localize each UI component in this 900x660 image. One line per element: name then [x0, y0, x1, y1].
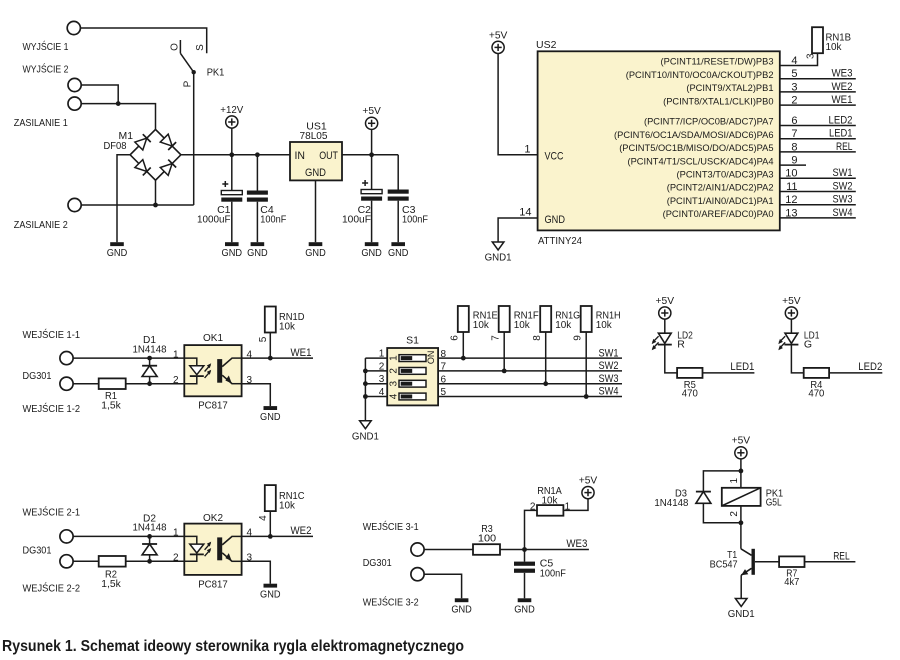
label DG301 [23, 545, 52, 557]
wire [126, 560, 185, 562]
svg-text:WE2: WE2 [291, 525, 312, 537]
label 470 [682, 387, 698, 399]
svg-text:10k: 10k [596, 319, 613, 331]
node junction [147, 356, 152, 361]
resistor RN1E [458, 306, 469, 332]
node junction [147, 559, 152, 564]
wire S1 common bus [364, 358, 366, 421]
svg-text:WE2: WE2 [832, 81, 853, 93]
terminal WEJŚCIE 1-2 [60, 377, 73, 390]
svg-text:S1: S1 [406, 335, 419, 347]
label 1N4148 [133, 344, 167, 356]
svg-text:8: 8 [532, 335, 543, 341]
svg-text:WEJŚCIE 2-2: WEJŚCIE 2-2 [23, 582, 81, 595]
wire pin 5 [780, 78, 856, 80]
ground [361, 242, 382, 259]
ground GND1 [728, 599, 755, 621]
node junction [739, 520, 744, 525]
label RN1G [555, 309, 580, 321]
wire [424, 549, 473, 551]
svg-text:GND1: GND1 [485, 252, 512, 264]
ground GND1 [485, 242, 512, 264]
svg-text:LED2: LED2 [858, 361, 882, 373]
net label SW2 [833, 180, 853, 192]
svg-text:WEJŚCIE 3-2: WEJŚCIE 3-2 [363, 596, 419, 609]
svg-text:Rysunek 1. Schemat ideowy ster: Rysunek 1. Schemat ideowy sterownika ryg… [2, 638, 464, 655]
svg-text:OK1: OK1 [203, 332, 223, 344]
label 100nF [402, 214, 428, 226]
wire +12V to rail and C1 [231, 128, 233, 190]
svg-text:LED2: LED2 [829, 114, 853, 126]
svg-text:G: G [804, 338, 812, 350]
wire pin 3 [780, 91, 856, 93]
bridge diode top-right [160, 134, 176, 150]
wire pin 12 [780, 204, 856, 206]
wire [424, 574, 462, 598]
node junction [363, 369, 368, 374]
svg-text:100nF: 100nF [260, 214, 286, 226]
svg-text:ON: ON [426, 351, 436, 365]
svg-text:1: 1 [729, 477, 740, 483]
label 100nF [540, 567, 566, 579]
pin label PA4 [627, 156, 773, 166]
ground [451, 598, 472, 615]
label VCC [545, 151, 564, 163]
svg-text:(PCINT0/AREF/ADC0)PA0: (PCINT0/AREF/ADC0)PA0 [663, 209, 774, 219]
node junction [502, 369, 507, 374]
net label WE1 [832, 94, 853, 106]
svg-text:2: 2 [173, 375, 179, 386]
svg-text:2: 2 [729, 511, 740, 517]
svg-text:LED1: LED1 [730, 361, 754, 373]
resistor RN1D [265, 307, 276, 333]
label M1 [119, 130, 134, 142]
node junction [147, 534, 152, 539]
svg-text:SW1: SW1 [599, 347, 619, 359]
svg-text:2: 2 [791, 95, 797, 107]
wire WE3 [500, 549, 589, 551]
label GND pin [305, 167, 326, 179]
bridge diode bottom-right [160, 160, 176, 176]
wire collector [740, 523, 742, 549]
power +5V [362, 105, 381, 129]
node junction [363, 381, 368, 386]
ic US2 ATTINY24 box [538, 51, 780, 230]
svg-text:OUT: OUT [319, 150, 338, 162]
label OK1 [203, 332, 223, 344]
svg-text:GND: GND [260, 411, 281, 423]
label T1 [727, 549, 737, 561]
svg-text:1: 1 [173, 349, 179, 360]
pin number 9 [791, 155, 797, 167]
svg-text:GND: GND [222, 247, 243, 259]
svg-text:G5L: G5L [766, 497, 782, 509]
resistor RN1B [812, 27, 823, 53]
capacitor C2 [361, 180, 382, 201]
svg-text:5: 5 [258, 336, 269, 342]
svg-text:OK2: OK2 [203, 512, 223, 524]
pin number 5 [441, 387, 447, 398]
relay coil PK1 [722, 488, 761, 506]
svg-text:SW4: SW4 [599, 386, 619, 398]
wire [269, 333, 271, 359]
svg-text:VCC: VCC [545, 151, 564, 163]
S1 switch 2 rocker [399, 368, 426, 375]
svg-text:8: 8 [441, 349, 447, 360]
pin label PB2 [626, 70, 774, 80]
svg-text:SW2: SW2 [599, 360, 619, 372]
svg-text:(PCINT10/INT0/OC0A/CKOUT)PB2: (PCINT10/INT0/OC0A/CKOUT)PB2 [626, 70, 774, 80]
svg-text:(PCINT7/ICP/OC0B/ADC7)PA7: (PCINT7/ICP/OC0B/ADC7)PA7 [644, 117, 774, 127]
label RN1D [279, 311, 305, 323]
svg-text:1000uF: 1000uF [197, 214, 231, 226]
svg-text:DF08: DF08 [104, 140, 127, 152]
svg-text:78L05: 78L05 [300, 130, 328, 142]
dip switch S1 box [387, 348, 438, 405]
label BC547 [710, 559, 738, 571]
pin number 4 [379, 387, 385, 398]
label US2 [536, 39, 557, 51]
svg-text:470: 470 [808, 387, 824, 399]
pin number 5 rotated [258, 336, 269, 342]
S1 right pin wire 8 [438, 357, 622, 359]
label 1,5k [101, 578, 121, 590]
svg-text:SW2: SW2 [833, 180, 853, 192]
svg-text:GND: GND [361, 247, 382, 259]
label LD2 [677, 330, 693, 342]
svg-text:SW3: SW3 [599, 373, 619, 385]
svg-text:+5V: +5V [489, 29, 508, 41]
S1 left pin wire 3 [365, 383, 387, 385]
pin number 2 [530, 501, 536, 512]
wire [81, 104, 155, 130]
wire [397, 155, 399, 190]
svg-text:1,5k: 1,5k [101, 578, 121, 590]
svg-text:S: S [195, 44, 206, 51]
pin number 11 [786, 181, 797, 193]
label US1 [306, 121, 327, 133]
label RN1E [473, 309, 498, 321]
relay contact PK1 O stub [179, 40, 181, 53]
S1 right pin wire 7 [438, 370, 622, 372]
node junction [461, 356, 466, 361]
S1 left pin wire 4 [365, 396, 387, 398]
pin number 7 [441, 362, 447, 373]
transistor T1 [741, 549, 755, 575]
label D2 [143, 512, 156, 524]
label 1000uF [197, 214, 231, 226]
label RN1C [279, 490, 305, 502]
svg-text:470: 470 [682, 387, 698, 399]
wire [664, 319, 666, 333]
svg-text:9: 9 [573, 335, 584, 341]
svg-text:ZASILANIE 2: ZASILANIE 2 [14, 219, 68, 231]
label 100 [478, 533, 496, 545]
ground [247, 242, 268, 259]
svg-text:10k: 10k [279, 321, 296, 333]
node junction [739, 469, 744, 474]
label C4 [260, 204, 274, 216]
label WEJSCIE 3-2 [363, 596, 419, 609]
label R4 [810, 379, 822, 391]
wire [256, 202, 258, 243]
net label WE2 [832, 81, 853, 93]
label 10k [279, 321, 296, 333]
ground [514, 598, 535, 615]
svg-text:GND1: GND1 [352, 430, 379, 442]
wire [242, 561, 271, 583]
pin number 4 [247, 349, 253, 360]
wire [149, 555, 151, 562]
svg-text:5: 5 [791, 68, 797, 80]
wire [231, 202, 233, 243]
svg-text:+5V: +5V [656, 295, 675, 307]
net label WE3 [566, 538, 587, 550]
node junction [268, 356, 273, 361]
wire pin 6 [780, 125, 856, 127]
power +5V [732, 435, 751, 459]
label PK1 [766, 487, 784, 499]
power +5V [579, 475, 598, 499]
label 100nF [260, 214, 286, 226]
svg-text:(PCINT4/T1/SCL/USCK/ADC4)PA4: (PCINT4/T1/SCL/USCK/ADC4)PA4 [627, 156, 773, 166]
label ATTINY24 [538, 235, 582, 247]
svg-text:GND: GND [451, 603, 472, 615]
svg-text:5: 5 [441, 387, 447, 398]
svg-text:(PCINT6/OC1A/SDA/MOSI/ADC6)PA6: (PCINT6/OC1A/SDA/MOSI/ADC6)PA6 [614, 130, 773, 140]
wire REL [805, 561, 856, 563]
wire [73, 357, 184, 359]
terminal WEJŚCIE 2-2 [60, 555, 73, 568]
label OUT [319, 150, 338, 162]
svg-text:10k: 10k [542, 494, 559, 506]
label RN1H [596, 309, 621, 321]
svg-text:WE1: WE1 [291, 347, 312, 359]
svg-text:O: O [169, 43, 180, 51]
LD2 light arrows [652, 336, 659, 350]
relay contact PK1 pole dot [192, 70, 196, 74]
wire WE2 [242, 535, 313, 537]
svg-text:7: 7 [441, 362, 447, 373]
wire [256, 155, 258, 191]
wire pin 11 [780, 191, 856, 193]
bridge rectifier M1 outline [130, 129, 181, 180]
label 10k [596, 319, 613, 331]
optocoupler OK1 box [184, 345, 241, 396]
wire [525, 510, 538, 549]
wire ZASILANIE 2 row [81, 204, 194, 206]
wire pin 8 [780, 151, 856, 153]
svg-text:100uF: 100uF [342, 214, 371, 226]
wire [740, 459, 742, 488]
node junction [369, 152, 374, 157]
pin number 12 [785, 194, 797, 206]
pin number 3 [791, 81, 797, 93]
pin number 7 [791, 128, 797, 140]
svg-text:1,5k: 1,5k [101, 399, 121, 411]
wire [829, 372, 882, 374]
svg-text:12: 12 [785, 194, 797, 206]
label DG301 [23, 370, 52, 382]
label ZASILANIE 1 [14, 117, 68, 129]
net label SW4 [599, 386, 619, 398]
svg-text:(PCINT5/OC1B/MISO/DO/ADC5)PA5: (PCINT5/OC1B/MISO/DO/ADC5)PA5 [619, 143, 773, 153]
svg-text:GND: GND [305, 167, 326, 179]
wire pin 4 to RN1B [780, 53, 818, 65]
OK1 light arrows [205, 363, 212, 378]
label PC817 [198, 579, 228, 591]
node junction [363, 394, 368, 399]
wire [524, 573, 526, 599]
label RN1F [514, 309, 539, 321]
label C2 [358, 204, 372, 216]
svg-text:(PCINT1/AIN0/ADC1)PA1: (PCINT1/AIN0/ADC1)PA1 [667, 196, 774, 206]
pin label PB3 [661, 57, 774, 67]
node junction [116, 101, 121, 106]
capacitor C1 [221, 181, 242, 202]
S1 digit 1 rotated [388, 355, 399, 361]
pin label PA5 [619, 143, 773, 153]
label D1 [143, 334, 156, 346]
label R7 [786, 567, 797, 579]
svg-text:(PCINT3/T0/ADC3)PA3: (PCINT3/T0/ADC3)PA3 [677, 170, 774, 180]
label WYJSCIE 2 [23, 63, 69, 76]
wire GND pin 14 [498, 218, 537, 242]
net label LED2 [829, 114, 853, 126]
diode D1 [142, 366, 157, 377]
label D3 [675, 487, 687, 499]
pin number 6 rotated [450, 335, 461, 341]
svg-text:+5V: +5V [362, 105, 381, 117]
wire US1 GND [315, 180, 317, 242]
wire bridge bottom vertex [155, 180, 157, 205]
wire [503, 332, 505, 371]
svg-text:DG301: DG301 [23, 545, 52, 557]
svg-text:R: R [677, 338, 685, 350]
label OK2 [203, 512, 223, 524]
svg-text:+5V: +5V [732, 435, 751, 447]
OK2 light arrows [205, 542, 212, 557]
svg-text:4k7: 4k7 [784, 576, 799, 588]
resistor R4 [804, 368, 829, 378]
svg-text:WEJŚCIE 1-1: WEJŚCIE 1-1 [23, 328, 81, 341]
terminal WEJŚCIE 1-1 [60, 352, 73, 365]
label R5 [684, 379, 696, 391]
node junction [522, 547, 527, 552]
wire VCC [498, 54, 537, 155]
svg-text:2: 2 [379, 361, 385, 372]
svg-text:4: 4 [379, 387, 385, 398]
svg-text:SW1: SW1 [833, 167, 853, 179]
svg-text:WE3: WE3 [566, 538, 587, 550]
wire [242, 384, 271, 406]
node junction [153, 203, 158, 208]
svg-text:4: 4 [388, 393, 399, 399]
svg-text:REL: REL [836, 141, 853, 153]
wire [665, 345, 677, 373]
label 4k7 [784, 576, 799, 588]
svg-text:DG301: DG301 [23, 370, 52, 382]
wire [545, 332, 547, 384]
S1 switch 1 rocker [399, 355, 426, 362]
wire +12V rail [181, 154, 290, 156]
node junction [147, 381, 152, 386]
pin number 8 [441, 349, 447, 360]
svg-text:(PCINT2/AIN1/ADC2)PA2: (PCINT2/AIN1/ADC2)PA2 [667, 183, 774, 193]
pin label PB1 [686, 83, 773, 93]
OK1 internal LED [184, 358, 204, 384]
svg-text:6: 6 [450, 335, 461, 341]
pin number 4 [247, 528, 253, 539]
svg-text:WEJŚCIE 1-2: WEJŚCIE 1-2 [23, 402, 81, 415]
label WEJŚCIE 1-2 [23, 402, 81, 415]
label WYJSCIE 1 [23, 40, 69, 53]
svg-text:10k: 10k [826, 41, 843, 53]
svg-text:6: 6 [441, 374, 447, 385]
wire [703, 372, 755, 374]
S1 digit 4 rotated [388, 393, 399, 399]
LD1 light arrows [778, 336, 785, 350]
ground [222, 242, 243, 259]
pin number 14 [519, 207, 531, 219]
net label LED1 [829, 128, 853, 140]
label G5L [766, 497, 782, 509]
svg-text:PK1: PK1 [207, 67, 225, 79]
resistor R3 [473, 544, 500, 555]
wire bridge minus to GND [117, 155, 130, 242]
svg-text:WEJŚCIE 3-1: WEJŚCIE 3-1 [363, 520, 419, 533]
svg-text:1N4148: 1N4148 [654, 497, 688, 509]
wire [269, 511, 271, 536]
terminal WYJSCIE 1 [67, 21, 80, 34]
label WEJŚCIE 2-2 [23, 582, 81, 595]
label R [677, 338, 685, 350]
pin number 1 [524, 144, 530, 156]
resistor RN1H [581, 306, 592, 332]
svg-text:1: 1 [379, 349, 385, 360]
net label WE2 [291, 525, 312, 537]
label 10k [514, 319, 531, 331]
pin label PA0 [663, 209, 774, 219]
pin label PA6 [614, 130, 773, 140]
label 1,5k [101, 399, 121, 411]
label R3 [481, 523, 493, 535]
wire [80, 28, 206, 53]
wire [371, 129, 373, 189]
pin number 10 [785, 168, 797, 180]
wire [149, 377, 151, 384]
S1 switch 4 rocker [399, 393, 426, 400]
S1 left pin wire 1 [365, 357, 387, 359]
LED LD1 [784, 333, 798, 344]
wire base [755, 561, 779, 563]
pin number 1 [379, 349, 385, 360]
svg-text:+12V: +12V [220, 104, 243, 116]
wire [740, 506, 742, 523]
net label LED1 [730, 361, 754, 373]
svg-text:2: 2 [173, 553, 179, 564]
svg-text:REL: REL [833, 551, 850, 563]
label R2 [105, 568, 117, 580]
pin number 3 [247, 553, 253, 564]
net label SW1 [833, 167, 853, 179]
svg-text:WE3: WE3 [832, 68, 853, 80]
svg-text:10: 10 [785, 168, 797, 180]
label 100uF [342, 214, 371, 226]
net label SW4 [833, 207, 853, 219]
net label SW3 [833, 194, 853, 206]
ground [260, 584, 281, 601]
